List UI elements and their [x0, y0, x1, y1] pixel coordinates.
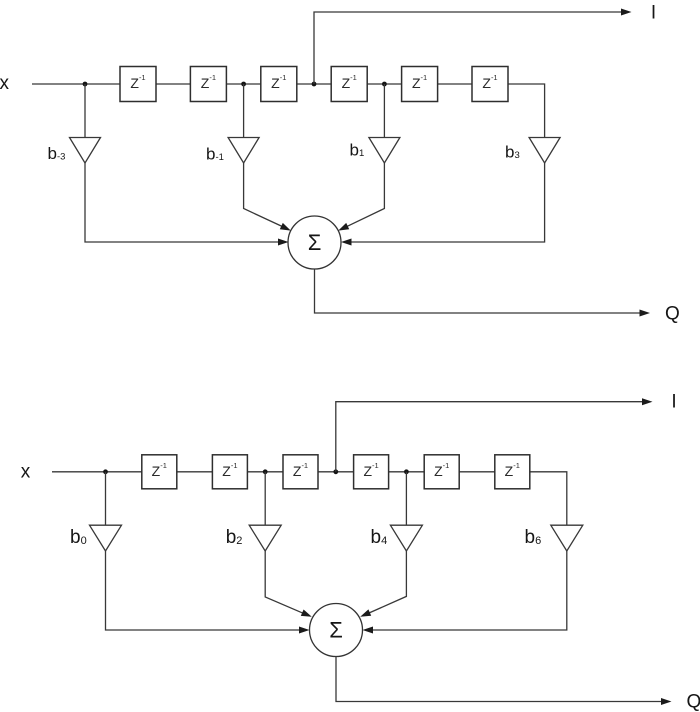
wire: I output tap up and right (top): [314, 12, 622, 84]
gain triangle b1 (top): [369, 138, 400, 164]
arrowhead I output (bottom): [642, 398, 653, 405]
wire: tap down to gain b-1 (top): [243, 84, 245, 138]
arrowhead b2 into summer (bottom): [301, 610, 312, 617]
wire: box1 to box2 (bottom): [177, 471, 213, 473]
summer circle (bottom): [310, 604, 363, 657]
gain triangle b0 (bottom): [90, 525, 122, 551]
delay block Z-1 #3 (top): [261, 67, 297, 102]
wire: box3 to box4 (top): [297, 83, 331, 85]
node: tap b2 (bottom): [263, 469, 268, 474]
delay block Z-1 #1 (bottom): [142, 455, 177, 489]
wire: b-3 to summer (top): [85, 163, 279, 242]
wire: I output tap up and right (bottom): [336, 402, 643, 472]
wire: b1 to summer (top): [347, 163, 384, 226]
arrowhead b3 into summer (top): [341, 239, 352, 246]
arrowhead Q output (top): [640, 310, 651, 317]
delay block Z-1 #6 (bottom): [495, 455, 530, 489]
wire: b4 to summer (bottom): [369, 551, 406, 613]
wire: box4 to box5 (top): [367, 83, 401, 85]
svg-text:I: I: [671, 392, 676, 413]
delay block Z-1 #2 (top): [190, 67, 226, 102]
wire: box6 to right corner (top): [508, 84, 545, 138]
wire: box2 to box3 (top): [226, 83, 260, 85]
node: tap b4 (bottom): [404, 469, 409, 474]
wire: b3 to summer (top): [351, 163, 545, 242]
wire: tap down to gain b-3 (top): [84, 84, 86, 138]
wire: box1 to box2 (top): [156, 83, 190, 85]
arrowhead b0 into summer (bottom): [299, 627, 310, 634]
delay block Z-1 #6 (top): [472, 67, 508, 102]
wire: summer to Q output (bottom): [336, 657, 661, 702]
wire: input x to first delay (top): [32, 83, 120, 85]
node: tap b-1 (top): [241, 82, 246, 87]
arrowhead b6 into summer (bottom): [363, 627, 374, 634]
gain triangle b-1 (top): [228, 138, 259, 164]
svg-text:I: I: [651, 3, 656, 24]
delay block Z-1 #5 (bottom): [424, 455, 459, 489]
wire: b0 to summer (bottom): [106, 551, 301, 630]
wire: box4 to box5 (bottom): [389, 471, 425, 473]
wire: box5 to box6 (bottom): [459, 471, 495, 473]
node: tap b-3 (top): [83, 82, 88, 87]
arrowhead b4 into summer (bottom): [360, 609, 371, 616]
delay block Z-1 #4 (top): [331, 67, 367, 102]
node: tap I output (bottom): [333, 469, 338, 474]
wire: tap down to gain b2 (bottom): [264, 472, 266, 525]
node: tap I output (top): [312, 82, 317, 87]
delay block Z-1 #4 (bottom): [354, 455, 389, 489]
wire: tap down to gain b1 (top): [383, 84, 385, 138]
wire: input x to first delay (bottom): [52, 471, 142, 473]
svg-text:Σ: Σ: [329, 618, 343, 643]
svg-text:x: x: [0, 73, 10, 94]
summer circle (top): [288, 216, 341, 269]
gain triangle b2 (bottom): [249, 525, 281, 551]
svg-text:x: x: [21, 462, 31, 483]
delay block Z-1 #1 (top): [120, 67, 156, 102]
delay block Z-1 #2 (bottom): [212, 455, 247, 489]
svg-text:Q: Q: [687, 692, 700, 712]
wire: box3 to box4 (bottom): [318, 471, 354, 473]
arrowhead b-3 into summer (top): [278, 239, 289, 246]
svg-text:Q: Q: [665, 304, 680, 325]
svg-text:Σ: Σ: [308, 230, 322, 255]
wire: tap down to gain b4 (bottom): [405, 472, 407, 525]
delay block Z-1 #5 (top): [402, 67, 438, 102]
gain triangle b3 (top): [529, 138, 560, 164]
wire: b6 to summer (bottom): [372, 551, 567, 630]
wire: summer to Q output (top): [315, 269, 640, 313]
arrowhead b-1 into summer (top): [280, 223, 291, 231]
arrowhead I output (top): [621, 9, 632, 16]
arrowhead Q output (bottom): [661, 698, 672, 705]
wire: b2 to summer (bottom): [265, 551, 303, 613]
gain triangle b6 (bottom): [551, 525, 583, 551]
gain triangle b-3 (top): [70, 138, 101, 164]
wire: box2 to box3 (bottom): [247, 471, 283, 473]
wire: tap down to gain b0 (bottom): [105, 472, 107, 525]
gain triangle b4 (bottom): [390, 525, 422, 551]
delay block Z-1 #3 (bottom): [283, 455, 318, 489]
wire: box6 to right corner (bottom): [530, 472, 567, 525]
arrowhead b1 into summer (top): [338, 223, 349, 231]
wire: b-1 to summer (top): [244, 163, 282, 226]
wire: box5 to box6 (top): [438, 83, 472, 85]
node: tap b0 (bottom): [103, 469, 108, 474]
node: tap b1 (top): [382, 82, 387, 87]
